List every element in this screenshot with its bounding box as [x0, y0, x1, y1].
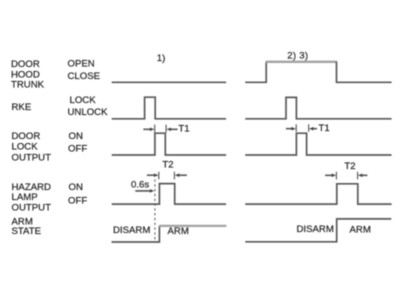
wire door right low lead-in and opening edge	[245, 62, 266, 83]
svg-text:1): 1)	[157, 53, 166, 64]
level labels OPEN / CLOSE	[68, 59, 101, 83]
svg-text:OPEN: OPEN	[68, 59, 95, 70]
svg-text:LAMP: LAMP	[12, 192, 38, 203]
svg-text:DISARM: DISARM	[297, 224, 334, 235]
dimension T2 left: ticks, arrows	[147, 172, 187, 180]
svg-text:ARM: ARM	[350, 225, 371, 236]
dimension T2 right: ticks, arrows	[325, 172, 367, 180]
signal label DOOR HOOD TRUNK	[11, 59, 45, 90]
svg-text:UNLOCK: UNLOCK	[68, 107, 109, 118]
svg-text:0.6s: 0.6s	[131, 180, 149, 191]
wire door/hood/trunk closed level (left diagram)	[112, 81, 226, 83]
signal label DOOR LOCK OUTPUT	[12, 131, 52, 163]
dimension 0.6s arrow	[135, 189, 154, 193]
wire door right closing edge and low tail	[337, 62, 392, 83]
svg-text:DISARM: DISARM	[113, 225, 150, 236]
dashed timing reference line	[154, 179, 156, 241]
svg-text:TRUNK: TRUNK	[11, 79, 45, 90]
wire door lock output left with pulse	[112, 133, 226, 155]
dimension T1 left: ticks, arrows	[143, 125, 177, 133]
wire door lock output right with pulse	[245, 133, 391, 155]
svg-text:T2: T2	[162, 159, 173, 170]
signal label HAZARD LAMP OUTPUT	[12, 182, 52, 214]
level labels ON / OFF (door lock)	[68, 131, 87, 154]
svg-text:OFF: OFF	[68, 196, 87, 207]
dimension T1 right: ticks, arrows	[286, 124, 317, 132]
svg-text:T2: T2	[344, 161, 355, 172]
svg-text:LOCK: LOCK	[70, 95, 97, 106]
svg-text:ARM: ARM	[168, 226, 189, 237]
wire arm state right disarm low, rising edge, armed level	[245, 219, 391, 242]
svg-text:2) 3): 2) 3)	[287, 50, 308, 61]
wire RKE right with lock pulse	[245, 97, 391, 118]
wire arm state left disarm low and rising edge	[112, 226, 160, 242]
svg-text:CLOSE: CLOSE	[68, 71, 101, 82]
svg-text:ON: ON	[69, 182, 83, 193]
wire door open high level (light)	[266, 61, 338, 63]
level labels LOCK / UNLOCK	[68, 95, 109, 118]
signal label ARM STATE	[12, 217, 42, 238]
svg-text:STATE: STATE	[12, 226, 42, 237]
wire hazard lamp output left with pulse	[112, 184, 226, 205]
svg-text:LOCK: LOCK	[12, 141, 39, 152]
svg-text:T1: T1	[178, 124, 189, 135]
svg-text:OFF: OFF	[68, 144, 87, 155]
wire hazard lamp output right with pulse	[245, 184, 391, 204]
svg-text:RKE: RKE	[12, 102, 32, 113]
svg-text:ON: ON	[69, 131, 83, 142]
svg-text:OUTPUT: OUTPUT	[12, 152, 52, 163]
level labels ON / OFF (hazard)	[68, 182, 87, 206]
wire arm state left armed level (light)	[159, 225, 226, 227]
svg-text:OUTPUT: OUTPUT	[12, 202, 52, 213]
wire RKE left with lock pulse	[112, 97, 226, 119]
svg-text:T1: T1	[319, 123, 330, 134]
